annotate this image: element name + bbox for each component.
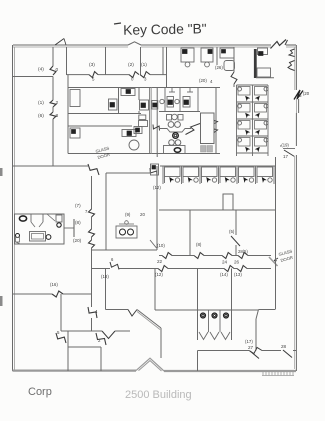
door (16) xyxy=(52,291,63,297)
svg-text:(3): (3) xyxy=(89,62,95,68)
svg-text:22: 22 xyxy=(157,259,163,264)
door 5 xyxy=(56,333,66,343)
desk against wall left xyxy=(151,164,159,175)
svg-text:26: 26 xyxy=(234,260,240,265)
wall y347 xyxy=(68,346,101,348)
suite shelf box xyxy=(139,115,146,120)
svg-text:(12): (12) xyxy=(153,185,161,190)
desk top office 2 xyxy=(201,48,213,62)
door (2) xyxy=(129,72,139,78)
svg-text:(20): (20) xyxy=(73,238,82,243)
diag corridor right xyxy=(256,310,259,320)
restroom2 door swing xyxy=(47,214,55,221)
wall x190 xyxy=(189,210,191,256)
svg-text:Corp: Corp xyxy=(28,386,52,398)
wall x105 xyxy=(105,47,107,75)
wall x197 long xyxy=(197,269,199,341)
suite wall x157 xyxy=(156,88,158,158)
outer right wall xyxy=(295,45,297,90)
restroom top desk 2 xyxy=(183,97,190,108)
svg-text:(26): (26) xyxy=(215,65,223,70)
door 4 xyxy=(88,307,97,318)
room18 bottom wall xyxy=(106,309,129,311)
wall x91 mid2 xyxy=(91,237,93,240)
svg-text:(16): (16) xyxy=(50,282,58,287)
stall doors xyxy=(199,332,208,340)
scan smudge 2 xyxy=(0,296,3,306)
stall toilet 2 xyxy=(212,313,217,318)
washroom circles 1 xyxy=(168,122,174,128)
suite desk 5 xyxy=(122,130,136,137)
svg-text:2: 2 xyxy=(56,100,59,106)
door (13) xyxy=(237,266,247,272)
svg-text:(7): (7) xyxy=(75,203,81,208)
washroom break 1 xyxy=(214,121,218,124)
svg-text:24: 24 xyxy=(222,260,228,265)
door 28 xyxy=(283,350,292,358)
restroom top row divider 2 xyxy=(179,88,181,112)
suite desk 2 xyxy=(121,89,135,96)
cabinet rounded xyxy=(224,61,235,71)
wall x161 xyxy=(160,328,162,358)
door (5) xyxy=(231,236,240,246)
wall x91 mid xyxy=(91,217,93,229)
wall x234 xyxy=(233,47,235,72)
svg-text:0: 0 xyxy=(56,67,59,73)
svg-text:(1): (1) xyxy=(141,62,147,68)
room18 door bottom xyxy=(128,310,137,317)
restroom top row wall xyxy=(159,111,200,113)
svg-text:(6): (6) xyxy=(38,113,44,119)
suite left wall xyxy=(67,75,69,154)
wall x275 xyxy=(275,157,277,309)
outer bottom wall xyxy=(13,370,137,372)
wall y166 left xyxy=(13,165,89,167)
top band bottom wall xyxy=(67,74,90,76)
wall x61 xyxy=(60,294,62,331)
wall x231 xyxy=(231,269,233,341)
toilet stalls bottom xyxy=(208,310,210,332)
svg-text:(14): (14) xyxy=(220,272,228,277)
washroom small room xyxy=(201,113,215,144)
suite desk 1 xyxy=(109,99,118,110)
door 2 xyxy=(96,333,106,345)
svg-text:20: 20 xyxy=(140,212,145,217)
bottom entry peak xyxy=(136,358,164,371)
right wall bracket squiggle 2 xyxy=(288,61,295,71)
column stub xyxy=(223,194,233,210)
svg-text:2500 Building: 2500 Building xyxy=(125,389,192,401)
door (1)2 xyxy=(50,100,56,107)
washroom toilet mid xyxy=(173,133,179,139)
washroom counter xyxy=(159,129,191,133)
L room thick wall xyxy=(254,49,257,78)
door 17 right wall xyxy=(283,148,295,150)
door (3) xyxy=(89,72,98,78)
desk top office 1 xyxy=(181,48,194,62)
wall x53 lower xyxy=(52,77,54,101)
wall x236 upper xyxy=(235,210,237,235)
svg-text:ₓ(19): ₓ(19) xyxy=(280,143,289,148)
suite round table xyxy=(129,140,139,150)
door (10) xyxy=(162,253,172,259)
suite wall x150 double xyxy=(149,88,151,154)
svg-text:(20: (20 xyxy=(303,91,310,96)
svg-text:(4): (4) xyxy=(38,67,44,73)
glass door 2 xyxy=(269,257,278,266)
glass door zigzag xyxy=(88,164,99,175)
wall y294 xyxy=(13,293,53,295)
svg-text:(20): (20) xyxy=(199,78,207,83)
room9 sink counter xyxy=(116,226,137,238)
svg-text:(12): (12) xyxy=(155,272,163,277)
wall x140 xyxy=(140,47,142,75)
diag wall double xyxy=(137,310,161,329)
svg-text:(17): (17) xyxy=(245,339,253,344)
door (14) xyxy=(224,266,234,272)
door (19) leaf top right xyxy=(271,40,287,49)
restroom top tee 2 xyxy=(189,88,191,93)
room9 bottom xyxy=(92,249,158,251)
suite top wall xyxy=(68,87,220,89)
svg-text:(2): (2) xyxy=(128,62,134,68)
top wall door opening leaf xyxy=(55,39,64,46)
stall toilet 3 xyxy=(224,313,229,318)
door (20) right wall xyxy=(294,90,303,100)
suite bottom wall xyxy=(68,153,220,155)
wall x217 xyxy=(216,47,218,65)
room9 door lower xyxy=(150,240,157,248)
wall x66 xyxy=(66,47,68,75)
restroom2 stall 1 xyxy=(30,214,32,222)
suite sofa xyxy=(70,90,80,107)
door (20) left xyxy=(89,240,95,248)
wall y309 right xyxy=(259,309,276,311)
suite door right xyxy=(153,125,160,131)
svg-text:17: 17 xyxy=(283,154,289,159)
corridor lower wall xyxy=(92,268,111,270)
suite wall y113 xyxy=(68,113,141,115)
cubicle row middle xyxy=(160,165,276,167)
cubicle stack 4 rows xyxy=(237,84,269,86)
suite desk 3 xyxy=(140,100,149,110)
door 28(5) xyxy=(238,253,248,259)
wall y210 xyxy=(159,209,276,211)
wall x68 low xyxy=(67,331,69,371)
restroom2 box xyxy=(15,214,65,244)
stall toilet 1 xyxy=(201,313,206,318)
washroom sink bar xyxy=(167,115,172,121)
restroom2 toilet right xyxy=(56,215,62,222)
door 6 room18 xyxy=(110,262,119,270)
svg-text:8: 8 xyxy=(56,113,59,119)
room9 wall left xyxy=(105,173,107,250)
door 24 xyxy=(222,253,232,259)
door V y331 xyxy=(102,331,115,339)
svg-text:(10): (10) xyxy=(157,243,165,248)
restroom2 toilet dark xyxy=(19,216,26,221)
suite wall x139 xyxy=(138,88,140,101)
restroom top row divider 1 xyxy=(164,88,166,112)
bottom right hatch strip xyxy=(262,372,264,376)
wall x91 lower xyxy=(91,248,93,307)
washroom door zig xyxy=(186,124,201,135)
svg-text:27: 27 xyxy=(248,345,254,350)
door 27 xyxy=(250,351,259,359)
door (8) corridor xyxy=(194,253,204,259)
desk L room xyxy=(258,48,268,55)
svg-text:(18): (18) xyxy=(101,274,109,279)
washroom circles 2 xyxy=(169,140,175,146)
room18 left wall xyxy=(105,269,107,310)
svg-text:28: 28 xyxy=(281,344,287,349)
vestibule top wall xyxy=(198,350,250,352)
desk kitchenette xyxy=(220,48,234,58)
suite wall y126 xyxy=(68,125,132,127)
svg-text:(8): (8) xyxy=(196,242,202,247)
washroom break 2 xyxy=(214,129,218,133)
restroom2 figure xyxy=(16,234,20,238)
suite closet fixture xyxy=(152,101,158,110)
wall x155 xyxy=(154,269,156,311)
svg-text:(1): (1) xyxy=(38,100,44,106)
svg-text:28(5): 28(5) xyxy=(238,249,248,254)
table L room xyxy=(257,68,271,77)
wall x91 upper xyxy=(91,176,93,209)
right wall bracket squiggle 1 xyxy=(289,49,295,57)
restroom wall x216 xyxy=(215,88,217,154)
wall room1 right xyxy=(52,47,54,66)
door (4) xyxy=(50,66,56,75)
door 22 xyxy=(158,266,168,272)
scan smudge 1 xyxy=(0,168,3,176)
svg-text:(8): (8) xyxy=(75,220,81,225)
restroom top tee 1 xyxy=(171,88,173,93)
svg-text:(13): (13) xyxy=(234,272,242,277)
svg-text:Key Code "B": Key Code "B" xyxy=(123,21,207,37)
corridor upper wall xyxy=(159,255,162,257)
room9 wall top xyxy=(106,172,150,174)
restroom2 stub wall xyxy=(64,227,74,229)
wall room1 bottom xyxy=(13,76,54,78)
outer left wall xyxy=(12,45,14,371)
suite desk 4 xyxy=(70,128,80,138)
wall x101 xyxy=(100,347,102,371)
suite desk 6 xyxy=(139,121,148,127)
wall x92 low xyxy=(91,294,93,307)
restroom2 sink circle xyxy=(46,235,51,240)
door (8) left xyxy=(89,229,95,237)
svg-text:(5): (5) xyxy=(229,229,235,234)
door (7) xyxy=(89,209,95,217)
suite wall x118 xyxy=(118,88,120,114)
svg-text:(9): (9) xyxy=(125,212,131,217)
door (1) xyxy=(140,72,150,78)
wall y310 xyxy=(155,309,259,311)
door (6)8 xyxy=(50,112,56,119)
washroom bottom box xyxy=(164,146,186,154)
restroom top row divider 3 xyxy=(197,88,199,112)
wall y331 xyxy=(61,330,102,332)
restroom top desk 1 xyxy=(167,97,174,108)
outer top wall xyxy=(13,44,128,46)
washroom gray squares xyxy=(201,146,207,153)
wall x256 xyxy=(255,319,257,351)
double wall x164 xyxy=(162,47,164,75)
room9 door top xyxy=(150,168,157,176)
room9 wall right xyxy=(156,166,158,250)
restroom2 tub xyxy=(30,232,46,242)
